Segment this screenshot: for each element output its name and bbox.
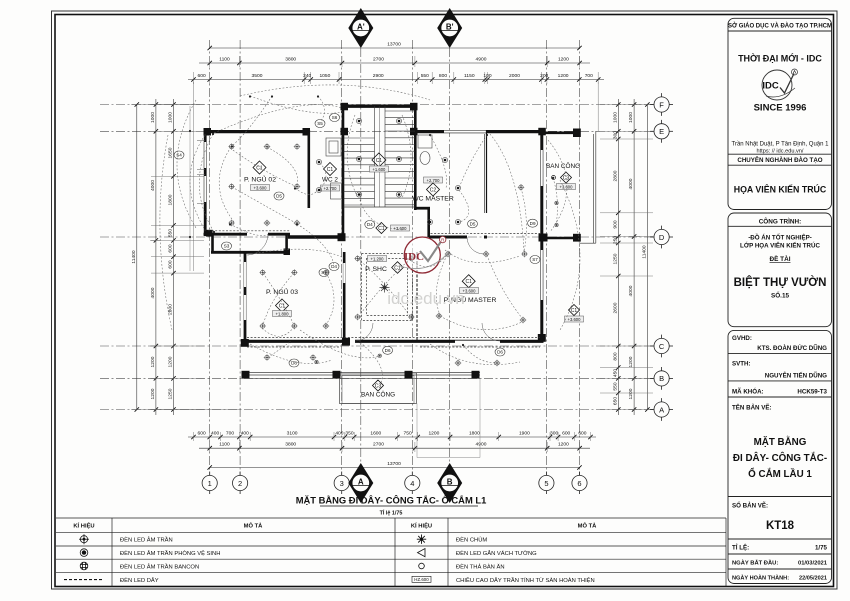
- sym: den tha ban an (circle): [419, 563, 425, 569]
- svg-text:1800: 1800: [168, 194, 174, 205]
- svg-text:13700: 13700: [387, 461, 401, 467]
- svg-text:NGUYỄN TIẾN DŨNG: NGUYỄN TIẾN DŨNG: [765, 373, 827, 380]
- plan: column grid lines: [100, 40, 654, 475]
- P.SHC dashed ceiling: [208, 231, 540, 338]
- stair treads: [344, 106, 416, 207]
- svg-text:THỜI ĐẠI MỚI - IDC: THỜI ĐẠI MỚI - IDC: [738, 53, 822, 64]
- svg-text:idc.edu.vn: idc.edu.vn: [387, 289, 465, 308]
- svg-text:+3.600: +3.600: [560, 184, 574, 189]
- svg-text:400: 400: [211, 430, 219, 436]
- svg-text:D5: D5: [276, 194, 282, 199]
- svg-text:800: 800: [439, 73, 447, 79]
- grid line B: [100, 377, 654, 379]
- svg-text:11400: 11400: [131, 250, 137, 264]
- svg-text:A': A': [357, 23, 365, 32]
- switch dots: [189, 95, 554, 346]
- svg-text:550: 550: [168, 229, 174, 237]
- svg-text:250: 250: [612, 236, 618, 244]
- svg-text:D8: D8: [291, 361, 297, 366]
- svg-text:450: 450: [612, 369, 618, 377]
- sym: den led day (dashed): [64, 579, 104, 581]
- hall C1 right: [565, 305, 584, 323]
- room P.NGU MASTER: [444, 275, 497, 304]
- WC fixtures: [326, 135, 432, 199]
- svg-text:D6: D6: [497, 350, 503, 355]
- svg-text:MẶT BẰNG: MẶT BẰNG: [754, 437, 807, 448]
- grid bubbles: [202, 93, 673, 494]
- svg-text:1600: 1600: [370, 430, 381, 436]
- section line B: [449, 48, 451, 467]
- svg-text:ĐÈN THẢ BÀN ĂN: ĐÈN THẢ BÀN ĂN: [456, 563, 505, 570]
- svg-text:2900: 2900: [373, 73, 384, 79]
- grid line E: [100, 130, 654, 132]
- svg-text:+3.600: +3.600: [568, 317, 582, 322]
- dimension tick marks: [135, 46, 650, 470]
- svg-text:1200: 1200: [558, 442, 569, 448]
- svg-text:C2: C2: [430, 187, 437, 193]
- grid line 6: [579, 40, 581, 475]
- right dim col2: [633, 99, 635, 415]
- svg-text:+2.700: +2.700: [427, 178, 441, 183]
- svg-text:1000: 1000: [168, 112, 174, 123]
- svg-text:KT18: KT18: [766, 520, 795, 532]
- svg-text:750: 750: [404, 430, 412, 436]
- svg-text:22/05/2021: 22/05/2021: [799, 576, 827, 582]
- drawing title under plan: [296, 495, 487, 517]
- svg-text:4000: 4000: [150, 287, 156, 298]
- svg-text:550: 550: [612, 382, 618, 390]
- top dim line row2: [199, 62, 590, 64]
- right dim col1: [617, 99, 619, 415]
- svg-text:C1: C1: [378, 226, 385, 232]
- svg-text:LỚP HỌA VIÊN KIẾN TRÚC: LỚP HỌA VIÊN KIẾN TRÚC: [740, 242, 820, 250]
- svg-text:+1.200: +1.200: [371, 256, 385, 261]
- sym: HZ.600 box: [412, 576, 431, 582]
- svg-text:+1.800: +1.800: [276, 311, 290, 316]
- columns: [204, 103, 581, 347]
- svg-text:11400: 11400: [641, 245, 647, 259]
- svg-text:1000: 1000: [150, 112, 156, 123]
- svg-text:MÔ TẢ: MÔ TẢ: [244, 522, 263, 530]
- bottom dim line row1: [188, 436, 596, 438]
- wiring arcs: [160, 85, 580, 365]
- svg-text:WC MASTER: WC MASTER: [412, 196, 454, 203]
- svg-text:CHUYÊN NGHÀNH ĐÀO TẠO: CHUYÊN NGHÀNH ĐÀO TẠO: [737, 156, 822, 164]
- svg-text:F: F: [659, 100, 664, 109]
- svg-text:1: 1: [208, 479, 212, 488]
- section line A: [360, 48, 362, 467]
- svg-text:SVTH:: SVTH:: [732, 361, 751, 368]
- svg-text:4900: 4900: [476, 442, 487, 448]
- room P.NGU 03: [266, 287, 298, 317]
- svg-text:1150: 1150: [464, 73, 475, 79]
- svg-text:E: E: [659, 127, 664, 136]
- svg-text:D9: D9: [530, 221, 536, 226]
- svg-text:700: 700: [226, 430, 234, 436]
- svg-text:ĐÈN LED ÂM TRẦN BANCON: ĐÈN LED ÂM TRẦN BANCON: [120, 563, 199, 570]
- svg-text:SỞ GIÁO DỤC VÀ ĐÀO TẠO TP.HCM: SỞ GIÁO DỤC VÀ ĐÀO TẠO TP.HCM: [728, 23, 832, 30]
- svg-text:WC 2: WC 2: [322, 177, 338, 184]
- svg-text:4: 4: [410, 479, 414, 488]
- svg-text:C: C: [659, 342, 665, 351]
- svg-text:1000: 1000: [612, 112, 618, 123]
- svg-text:D6: D6: [385, 348, 391, 353]
- grid line D: [100, 236, 654, 238]
- terrace railing: [190, 106, 480, 458]
- room BAN CONG top: [546, 161, 580, 190]
- svg-text:3100: 3100: [287, 430, 298, 436]
- svg-text:2600: 2600: [612, 302, 618, 313]
- sym: den led gan vach tuong (triangle): [418, 549, 426, 557]
- svg-text:S7: S7: [532, 257, 538, 262]
- svg-text:C1: C1: [571, 308, 578, 314]
- svg-text:6: 6: [577, 479, 581, 488]
- sym: den chum (star): [417, 535, 426, 544]
- sym: den led am tran: [80, 536, 87, 543]
- svg-text:1200: 1200: [558, 57, 569, 63]
- grid line 3: [341, 40, 343, 475]
- svg-text:3800: 3800: [285, 57, 296, 63]
- svg-text:Ổ CẮM LẦU 1: Ổ CẮM LẦU 1: [748, 468, 812, 480]
- svg-text:400: 400: [241, 430, 249, 436]
- svg-text:4000: 4000: [628, 178, 634, 189]
- dimension lines: [137, 48, 648, 468]
- svg-text:1/75: 1/75: [815, 545, 828, 552]
- svg-text:3500: 3500: [252, 73, 263, 79]
- IDC logo in titleblock: [762, 69, 798, 100]
- svg-text:KÍ HIỆU: KÍ HIỆU: [73, 522, 94, 530]
- right dim col3: [646, 105, 648, 410]
- svg-text:1200: 1200: [150, 388, 156, 399]
- svg-text:550: 550: [421, 73, 429, 79]
- svg-text:240: 240: [303, 73, 311, 79]
- svg-text:300: 300: [612, 131, 618, 139]
- svg-text:HỌA VIÊN KIẾN TRÚC: HỌA VIÊN KIẾN TRÚC: [734, 184, 827, 195]
- svg-text:BAN CÔNG: BAN CÔNG: [361, 390, 395, 399]
- svg-text:D5: D5: [470, 222, 476, 227]
- svg-text:+1.600: +1.600: [372, 167, 386, 172]
- dimension texts top: [131, 42, 648, 467]
- left dim col2: [155, 99, 157, 415]
- sym: den led am tran pvs: [80, 549, 88, 557]
- svg-text:600: 600: [198, 430, 206, 436]
- left dim col1: [173, 99, 175, 415]
- title block box 1 (logo/school): [728, 18, 832, 209]
- grid line 4: [411, 40, 413, 475]
- svg-text:D: D: [659, 233, 665, 242]
- building walls: [197, 105, 596, 342]
- svg-text:TÊN BẢN VẼ:: TÊN BẢN VẼ:: [732, 404, 772, 412]
- svg-text:MÔ TẢ: MÔ TẢ: [578, 522, 597, 530]
- svg-text:P. NGỦ 02: P. NGỦ 02: [244, 175, 276, 184]
- room WC 2: [321, 163, 340, 192]
- svg-text:NGÀY HOÀN THÀNH:: NGÀY HOÀN THÀNH:: [732, 575, 789, 582]
- svg-text:KÍ HIỆU: KÍ HIỆU: [411, 522, 432, 530]
- grid line A: [100, 409, 654, 411]
- svg-text:ĐÈN LED ÂM TRẦN: ĐÈN LED ÂM TRẦN: [120, 537, 173, 544]
- grid line C: [100, 345, 654, 347]
- IDC watermark logo: [400, 236, 448, 273]
- title block box 2 (cong trinh): [728, 213, 832, 327]
- chandelier P.SHC: [380, 283, 390, 293]
- left dim col3: [136, 105, 138, 410]
- legend header + rows text: [73, 522, 597, 584]
- svg-text:CHIỀU CAO DÂY TRẦN TÍNH TỪ SÀN: CHIỀU CAO DÂY TRẦN TÍNH TỪ SÀN HOÀN THIỆ…: [456, 576, 595, 584]
- svg-text:1100: 1100: [219, 442, 230, 448]
- svg-text:200: 200: [540, 73, 548, 79]
- room P.SHC: [365, 256, 403, 274]
- svg-text:HCK59-T3: HCK59-T3: [797, 389, 827, 396]
- legend table: [56, 518, 726, 587]
- svg-text:1200: 1200: [168, 356, 174, 367]
- svg-text:SỐ BẢN VẼ:: SỐ BẢN VẼ:: [732, 503, 768, 510]
- svg-text:2700: 2700: [373, 57, 384, 63]
- svg-text:300: 300: [550, 430, 558, 436]
- titleblock column separator: [728, 18, 832, 583]
- svg-text:1200: 1200: [150, 356, 156, 367]
- svg-text:1800: 1800: [469, 430, 480, 436]
- svg-text:TỈ LỆ:: TỈ LỆ:: [732, 544, 749, 552]
- svg-text:600: 600: [198, 73, 206, 79]
- LED strip dashes terrace: [247, 346, 540, 348]
- svg-text:100: 100: [483, 73, 491, 79]
- svg-text:ĐỀ TÀI: ĐỀ TÀI: [770, 253, 791, 263]
- svg-text:https: // idc.edu.vn/: https: // idc.edu.vn/: [757, 148, 804, 154]
- svg-text:1200: 1200: [628, 356, 634, 367]
- svg-text:C1: C1: [327, 167, 334, 173]
- sym: den led am tran bancon: [80, 562, 88, 570]
- svg-text:2700: 2700: [373, 442, 384, 448]
- svg-text:900: 900: [612, 220, 618, 228]
- svg-text:MẶT BẰNG ĐI DÂY- CÔNG TẮC- Ổ C: MẶT BẰNG ĐI DÂY- CÔNG TẮC- Ổ CẮM L1: [296, 495, 487, 506]
- svg-text:01/03/2021: 01/03/2021: [798, 561, 828, 567]
- dimension extension lines: [131, 56, 653, 452]
- svg-text:2000: 2000: [509, 73, 520, 79]
- svg-text:1250: 1250: [612, 253, 618, 264]
- door swing arcs: [247, 234, 500, 341]
- svg-text:HZ.600: HZ.600: [414, 577, 429, 582]
- svg-text:S4: S4: [176, 153, 182, 158]
- legend symbols: [64, 534, 431, 582]
- svg-text:B: B: [447, 478, 453, 487]
- svg-text:IDC: IDC: [762, 81, 779, 92]
- svg-text:2800: 2800: [168, 304, 174, 315]
- grid line 1: [209, 40, 211, 475]
- svg-text:350: 350: [345, 430, 353, 436]
- ceiling lights: [228, 118, 558, 366]
- svg-text:P. SHC: P. SHC: [365, 266, 387, 273]
- svg-text:MÃ KHÓA:: MÃ KHÓA:: [732, 388, 764, 396]
- svg-text:S6: S6: [332, 115, 338, 120]
- title block texts: [728, 23, 832, 300]
- grid line 5: [545, 40, 547, 475]
- svg-text:1200: 1200: [628, 388, 634, 399]
- title block box 3 (info rows): [728, 330, 832, 583]
- svg-text:4900: 4900: [476, 57, 487, 63]
- svg-text:D4: D4: [331, 264, 337, 269]
- svg-text:1000: 1000: [628, 112, 634, 123]
- svg-text:400: 400: [335, 430, 343, 436]
- svg-text:3: 3: [340, 479, 344, 488]
- svg-text:600: 600: [168, 244, 174, 252]
- bottom dim line row2: [199, 447, 590, 449]
- svg-text:BIỆT THỰ VƯỜN: BIỆT THỰ VƯỜN: [734, 276, 827, 289]
- stairwell label C1: [369, 153, 388, 172]
- room P.NGU 02: [244, 161, 276, 191]
- extra wiring arcs: [190, 96, 557, 385]
- svg-text:800: 800: [612, 352, 618, 360]
- room BAN CONG bottom: [361, 380, 395, 399]
- svg-text:B: B: [659, 374, 664, 383]
- grid line 2: [239, 40, 241, 475]
- svg-text:Trần Nhật Duật, P Tân Định, Qu: Trần Nhật Duật, P Tân Định, Quận 1: [732, 142, 830, 148]
- svg-text:B': B': [446, 23, 454, 32]
- svg-text:NGÀY BẮT ĐẦU:: NGÀY BẮT ĐẦU:: [732, 559, 778, 567]
- svg-text:1250: 1250: [168, 388, 174, 399]
- svg-text:600: 600: [168, 260, 174, 268]
- svg-text:2800: 2800: [612, 170, 618, 181]
- svg-text:+3.600: +3.600: [394, 226, 408, 231]
- svg-text:-ĐỒ ÁN TỐT NGHIỆP-: -ĐỒ ÁN TỐT NGHIỆP-: [748, 234, 812, 242]
- grid line F: [100, 104, 654, 106]
- svg-text:C1: C1: [465, 279, 472, 285]
- svg-text:3800: 3800: [285, 442, 296, 448]
- svg-text:600: 600: [578, 430, 586, 436]
- svg-text:ĐÈN LED GẮN VÁCH TƯỜNG: ĐÈN LED GẮN VÁCH TƯỜNG: [456, 549, 537, 557]
- svg-text:5: 5: [544, 479, 548, 488]
- svg-text:4000: 4000: [150, 180, 156, 191]
- svg-text:S5: S5: [317, 121, 323, 126]
- svg-text:S3: S3: [224, 244, 230, 249]
- svg-text:SỐ.15: SỐ.15: [771, 290, 790, 300]
- svg-text:C1: C1: [376, 158, 383, 164]
- svg-text:600: 600: [562, 430, 570, 436]
- svg-text:TỈ lệ 1/75: TỈ lệ 1/75: [380, 510, 403, 517]
- svg-text:KTS. ĐOÀN ĐỨC DŨNG: KTS. ĐOÀN ĐỨC DŨNG: [757, 345, 827, 352]
- svg-text:1050: 1050: [319, 73, 330, 79]
- bottom dim line 13700: [210, 467, 580, 469]
- svg-text:1100: 1100: [219, 57, 230, 63]
- svg-text:ĐÈN LED ÂM TRẦN PHÒNG VỆ SINH: ĐÈN LED ÂM TRẦN PHÒNG VỆ SINH: [120, 549, 220, 557]
- svg-text:+3.600: +3.600: [254, 185, 268, 190]
- svg-text:CÔNG TRÌNH:: CÔNG TRÌNH:: [759, 217, 802, 226]
- section markers: [348, 8, 462, 503]
- svg-text:1200: 1200: [558, 73, 569, 79]
- svg-text:650: 650: [612, 397, 618, 405]
- svg-text:2: 2: [238, 479, 242, 488]
- svg-text:C1: C1: [279, 303, 286, 309]
- svg-text:GVHD:: GVHD:: [732, 335, 752, 342]
- svg-text:D4: D4: [367, 222, 373, 227]
- top dim line 13700: [210, 47, 580, 49]
- svg-text:1650: 1650: [168, 147, 174, 158]
- svg-text:700: 700: [585, 73, 593, 79]
- svg-text:1900: 1900: [519, 430, 530, 436]
- svg-text:ĐÈN CHÙM: ĐÈN CHÙM: [456, 537, 487, 544]
- svg-text:SINCE 1996: SINCE 1996: [754, 103, 807, 114]
- svg-text:1200: 1200: [428, 430, 439, 436]
- room WC MASTER: [412, 177, 454, 203]
- svg-text:4000: 4000: [628, 285, 634, 296]
- svg-text:P. NGỦ 03: P. NGỦ 03: [266, 287, 298, 296]
- svg-text:A: A: [358, 478, 364, 487]
- top dim line row3: [188, 79, 604, 81]
- svg-text:A: A: [659, 405, 664, 414]
- svg-text:ĐÈN LED DÂY: ĐÈN LED DÂY: [120, 577, 159, 584]
- switch/door labels: [174, 114, 540, 368]
- corridor C1: [376, 223, 410, 234]
- svg-text:ĐI DÂY- CÔNG TẮC-: ĐI DÂY- CÔNG TẮC-: [733, 452, 827, 464]
- svg-text:13700: 13700: [387, 42, 401, 48]
